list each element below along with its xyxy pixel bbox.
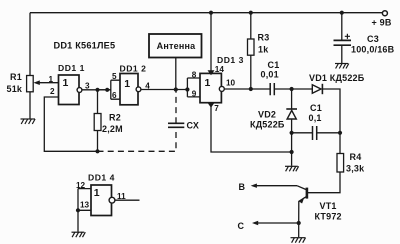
- wire antenna lead: [175, 58, 177, 90]
- wire dashed to CX: [98, 127, 177, 151]
- svg-text:СХ: СХ: [187, 121, 200, 131]
- svg-text:C1: C1: [268, 60, 280, 70]
- svg-text:R4: R4: [350, 152, 362, 162]
- wire rail down to R1: [29, 13, 31, 76]
- resistor R4: [308, 133, 344, 193]
- capacitor C3: [334, 13, 352, 63]
- ground (mid, below VD2): [285, 166, 299, 171]
- wire emitter to ground: [298, 223, 300, 237]
- svg-text:13: 13: [80, 200, 90, 209]
- wire pin 7 to ground rail: [208, 103, 292, 152]
- svg-text:3,3k: 3,3k: [346, 163, 365, 173]
- node R3 bottom: [249, 87, 253, 91]
- svg-text:DD1 2: DD1 2: [120, 63, 147, 73]
- svg-text:VD1 КД522Б: VD1 КД522Б: [309, 73, 365, 83]
- svg-text:8: 8: [192, 70, 197, 79]
- capacitor C1 0,1: [292, 126, 340, 140]
- gate DD1.4: [78, 185, 115, 216]
- svg-text:C1: C1: [310, 103, 322, 113]
- svg-text:5: 5: [112, 72, 117, 81]
- svg-text:0,1: 0,1: [309, 113, 322, 123]
- svg-text:C3: C3: [367, 34, 379, 44]
- svg-text:DD1 3: DD1 3: [217, 55, 244, 65]
- svg-text:R1: R1: [10, 72, 22, 82]
- wire R1 to ground: [29, 92, 31, 119]
- wire pin 14 from rail: [208, 13, 215, 76]
- node VD2 top: [290, 87, 294, 91]
- svg-text:R3: R3: [258, 33, 270, 43]
- wire dashed CX to antenna node: [175, 90, 177, 124]
- wire DD1.3 output: [224, 88, 269, 90]
- capacitor CX: [168, 123, 184, 127]
- node antenna junction: [174, 87, 178, 91]
- svg-text:51k: 51k: [7, 84, 23, 94]
- resistor R2: [94, 90, 101, 152]
- diode VD2: [286, 89, 297, 152]
- svg-text:9: 9: [192, 90, 197, 99]
- svg-text:DD1 4: DD1 4: [88, 173, 115, 183]
- node R4 top: [338, 131, 342, 135]
- wire DD1.4 inputs to ground: [77, 210, 79, 231]
- svg-text:3: 3: [85, 81, 90, 90]
- node feedback bottom: [95, 149, 99, 153]
- node DD1.3 input bar: [185, 87, 189, 91]
- wire DD1.4 output stub: [115, 199, 140, 201]
- node VD2 anode / C1: [290, 131, 294, 135]
- svg-text:10: 10: [226, 79, 236, 88]
- svg-text:1k: 1k: [258, 45, 269, 55]
- node ground rail VD2: [290, 150, 294, 154]
- output C arrow: [252, 221, 299, 225]
- ground (below R1): [21, 119, 36, 124]
- wire ground stub: [291, 152, 293, 166]
- wire DD1.1 pin2 feedback: [44, 97, 97, 151]
- wire +9V top rail: [30, 12, 382, 14]
- terminal +9V: [382, 11, 387, 16]
- resistor R3: [248, 13, 255, 89]
- svg-text:1: 1: [63, 77, 69, 89]
- svg-text:1: 1: [94, 187, 100, 199]
- gate DD1.2: [111, 74, 141, 105]
- svg-text:+ 9В: + 9В: [372, 18, 392, 28]
- ground (below C3): [335, 64, 349, 69]
- node R2 top: [95, 88, 99, 92]
- svg-text:Антенна: Антенна: [157, 41, 196, 51]
- wire C1 to VD1: [274, 88, 312, 90]
- svg-text:2,2М: 2,2М: [102, 124, 123, 134]
- svg-text:1: 1: [205, 77, 211, 89]
- node rail C3: [340, 11, 344, 15]
- svg-text:1: 1: [124, 78, 130, 90]
- svg-text:0,01: 0,01: [261, 70, 279, 80]
- svg-text:2: 2: [50, 87, 55, 96]
- svg-text:DD1 К561ЛЕ5: DD1 К561ЛЕ5: [54, 41, 116, 51]
- transistor VT1: [297, 186, 307, 223]
- svg-text:R2: R2: [109, 113, 121, 123]
- svg-text:КД522Б: КД522Б: [250, 120, 285, 130]
- capacitor C1 0,01: [270, 83, 274, 95]
- output B arrow: [251, 184, 297, 188]
- svg-text:С: С: [238, 221, 245, 231]
- antenna box: [149, 34, 202, 58]
- node rail R3: [249, 11, 253, 15]
- svg-text:VD2: VD2: [258, 110, 276, 120]
- ground (below VT1 emitter): [291, 238, 306, 243]
- svg-text:КТ972: КТ972: [315, 212, 342, 222]
- svg-text:100,0/16В: 100,0/16В: [351, 44, 395, 54]
- svg-text:14: 14: [215, 65, 225, 74]
- wire DD1.2 output: [141, 89, 188, 91]
- node DD1.4 inputs: [76, 208, 80, 212]
- node rail pin14: [209, 11, 213, 15]
- svg-text:1: 1: [49, 75, 54, 84]
- gate DD1.3: [187, 73, 224, 102]
- svg-text:7: 7: [214, 104, 219, 113]
- wire VD1 to R4 node: [322, 89, 340, 133]
- svg-text:12: 12: [76, 181, 86, 190]
- wire DD1.1 output: [82, 89, 111, 91]
- ground (below DD1.4): [72, 232, 86, 237]
- svg-text:VT1: VT1: [320, 201, 337, 211]
- svg-text:В: В: [239, 182, 246, 192]
- svg-text:6: 6: [112, 91, 117, 100]
- diode VD1: [312, 84, 322, 94]
- wire DD1.2 input: [98, 89, 111, 91]
- svg-text:DD1 1: DD1 1: [58, 63, 85, 73]
- node emitter junction: [297, 221, 301, 225]
- node DD1.2 input: [105, 88, 109, 92]
- resistor R1 (trimmer, wiper arrow from DD1.1 pin 1): [27, 76, 59, 92]
- gate DD1.1: [59, 75, 82, 105]
